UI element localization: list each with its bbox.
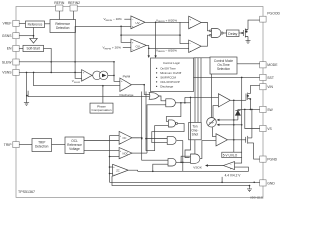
wire long rail to UVLO: [138, 167, 249, 171]
transistor PGOOD pulldown Q1: [242, 30, 244, 36]
wire HS source to SW row: [249, 99, 251, 110]
wire gate A input2 from rail: [153, 164, 168, 171]
svg-text:Detection: Detection: [35, 145, 49, 149]
svg-text:SKIP: SKIP: [209, 122, 215, 124]
wire Delay to PG FET gate: [239, 32, 244, 34]
svg-text:Voltage: Voltage: [69, 147, 80, 151]
wire VSNS to UV+: [75, 25, 131, 27]
box Reference Detection: [50, 20, 76, 33]
wire LS source to PGND: [254, 143, 260, 159]
svg-text:VS: VS: [267, 127, 272, 131]
box TRIP Detection: [32, 139, 52, 152]
svg-text:UV: UV: [136, 21, 140, 25]
svg-text:NOC: NOC: [123, 152, 129, 156]
svg-text:Soft-Start: Soft-Start: [26, 47, 40, 51]
ground symbol near GND: [247, 189, 252, 192]
gate NAND U6: [212, 29, 221, 38]
wire GSNS: [19, 35, 33, 37]
svg-text:VIN: VIN: [267, 85, 273, 89]
wire OCL out 2: [84, 149, 119, 151]
wire VREFIN+20% threshold: [123, 47, 131, 49]
pin REFIN2: [70, 5, 77, 11]
wire Soft-Start out down to VSNS line: [44, 48, 52, 72]
wire mode vertical: [233, 100, 235, 152]
pin REFIN: [56, 5, 63, 11]
gate AND G3: [168, 120, 175, 127]
pin MODE: [260, 62, 266, 68]
bottom rail 1: [110, 181, 260, 183]
wire UVP comp out to NAND: [201, 35, 209, 46]
wire VSNS branch down to OV: [121, 26, 131, 42]
comparator OVP U4: [189, 16, 202, 29]
svg-text:REFIN2: REFIN2: [68, 1, 80, 5]
wire to ZC input2: [110, 172, 113, 174]
junction dots left: [26, 35, 115, 97]
diode D1: [237, 109, 239, 120]
wire OC out to vertical: [132, 137, 142, 139]
svg-text:MODE: MODE: [267, 63, 278, 67]
pin SLEW: [13, 59, 19, 65]
pin GSNS: [13, 33, 19, 39]
pin GND: [260, 180, 266, 186]
comparator OV U3: [131, 39, 146, 52]
wire G2 out: [176, 102, 191, 104]
svg-text:OV: OV: [136, 44, 140, 48]
ground below PG FET: [246, 41, 251, 44]
wire SST branch down to UVLO: [241, 77, 243, 152]
box Delay: [227, 30, 240, 37]
wire G3 out staircase to G4: [152, 123, 184, 142]
gate AND G4: [167, 137, 176, 145]
svg-text:ZC: ZC: [116, 168, 120, 172]
junction dots middle: [141, 84, 191, 140]
box Control Mode On-Time Selection: [210, 57, 237, 74]
svg-text:SW: SW: [267, 108, 273, 112]
wire Ton box down to gate B: [194, 140, 196, 154]
wire EN to Soft-Start: [19, 47, 23, 49]
svg-text:Delay: Delay: [228, 32, 237, 36]
svg-text:VREFIN + 8/20%: VREFIN + 8/20%: [156, 18, 177, 23]
wire Reference to analog ground: [33, 28, 35, 39]
pin PGOOD: [260, 16, 266, 22]
svg-text:OCL/OVP/UVP: OCL/OVP/UVP: [160, 80, 180, 84]
box Control Logic: [151, 58, 194, 92]
svg-text:UDG-11121: UDG-11121: [250, 196, 264, 200]
svg-text:VSNS: VSNS: [2, 71, 12, 75]
wire VSOK out: [207, 165, 224, 167]
wire REFIN down: [58, 11, 60, 20]
wire to ZC input1: [110, 166, 113, 168]
wire LS driver to LS FET gate: [228, 139, 246, 141]
comparator ZC U13: [113, 164, 129, 176]
wire NOC up to G2 input2: [147, 105, 166, 153]
wire PWM node vertical: [114, 62, 120, 82]
svg-text:5-V UVLO: 5-V UVLO: [223, 153, 238, 157]
op-amp error amplifier U7: [82, 70, 92, 82]
wire VREF pin to Reference: [19, 22, 25, 24]
wire driver node down to gate B: [185, 97, 191, 157]
wire gate B out to LS driver: [200, 141, 216, 159]
box Reference: [26, 21, 45, 28]
wire control vertical 1: [142, 92, 168, 161]
comparator PWM U8: [120, 78, 132, 91]
gate B AND G6: [191, 154, 200, 163]
wire control vertical 2 to G3 input2: [146, 92, 168, 151]
wire skip arrows: [218, 119, 238, 121]
wire MODE: [237, 63, 260, 65]
svg-text:PWM: PWM: [123, 74, 131, 78]
wire PWM out: [132, 84, 145, 86]
box Phase Compensation: [90, 103, 113, 113]
wire OV output: [146, 45, 188, 48]
comparator UVLO U14 (points left): [223, 162, 234, 170]
svg-text:Compensation: Compensation: [92, 108, 112, 112]
svg-text:Control Logic: Control Logic: [163, 61, 181, 65]
wire OR out to AND G2: [159, 96, 166, 101]
arrow VSOK: [205, 164, 208, 167]
wire OCL out 1: [84, 140, 119, 142]
ground below discharge FET: [24, 103, 29, 106]
svg-text:VREFIN – 8/20%: VREFIN – 8/20%: [156, 48, 177, 53]
wire discharge signal: [28, 96, 149, 98]
wire sense distribution vertical: [109, 136, 111, 183]
pin VREF: [13, 20, 19, 26]
gate A AND G5: [168, 159, 176, 166]
svg-text:Discharge: Discharge: [120, 93, 134, 97]
wire branch to G3 staircase: [166, 103, 181, 122]
svg-text:Detection: Detection: [56, 26, 70, 30]
wire PG FET drain to PGOOD: [248, 20, 260, 29]
wire verticals into Ton One-Shot: [194, 58, 196, 123]
wire Reference to Reference Detection: [45, 23, 51, 25]
wire SST: [194, 76, 260, 78]
wire TRIP Detection to OCL box: [52, 144, 66, 146]
analog ground triangle: [30, 38, 38, 43]
wire SLEW: [19, 61, 114, 63]
wire NOC out up to AND1 (drawn above): [132, 152, 147, 154]
driver high-side U9: [218, 94, 230, 107]
wire On-Time box to SKIP circle: [211, 74, 213, 118]
svg-text:VREF: VREF: [2, 22, 11, 26]
wire control logic to on-time box: [194, 57, 211, 59]
svg-text:PGOOD: PGOOD: [267, 12, 280, 16]
junction dots bottom: [102, 85, 255, 187]
wire UV output to OVP comp: [145, 21, 189, 23]
svg-text:SLEW: SLEW: [2, 60, 12, 64]
svg-text:Minimum On/Off: Minimum On/Off: [160, 71, 181, 75]
wire NAND to Delay: [223, 32, 226, 34]
wire gate A out to gate B: [176, 161, 191, 163]
wire node comp right vertical: [180, 22, 189, 43]
svg-text:Selection: Selection: [217, 67, 230, 71]
arrows into skip circle: [217, 119, 220, 126]
wire G4 input1: [146, 138, 167, 140]
comparator UV U2: [131, 16, 145, 29]
wire phase comp to feedback node: [102, 86, 104, 103]
svg-text:PGND: PGND: [267, 158, 277, 162]
junction dots top cluster: [120, 22, 247, 50]
wire VREFIN-10% threshold: [124, 18, 131, 20]
wire LS driver input from skip circle: [213, 127, 217, 137]
wire to HS driver: [185, 96, 219, 98]
comparator OC U11: [119, 131, 132, 144]
wire UVLO down to rail: [221, 177, 223, 182]
svg-text:GND: GND: [267, 181, 275, 185]
pin EN: [13, 45, 19, 51]
svg-text:OC: OC: [123, 136, 127, 140]
wire to NOC input2: [110, 156, 120, 158]
svg-text:REFIN: REFIN: [54, 1, 65, 5]
arrows into control logic: [148, 55, 157, 58]
wire branch up to HS driver line: [184, 97, 186, 102]
pin SST: [260, 74, 266, 80]
svg-text:VSOK: VSOK: [193, 166, 203, 170]
wire UVLO upper input: [235, 158, 242, 164]
svg-text:Reference: Reference: [28, 22, 43, 26]
wire branch up to gate B input1: [181, 156, 190, 162]
wire SW row: [238, 108, 260, 110]
gate OR G1: [149, 93, 159, 100]
transistor HS FET Q3: [245, 94, 247, 101]
circle skip mode: [207, 118, 217, 128]
svg-text:SKIP/FCCM: SKIP/FCCM: [160, 75, 176, 79]
svg-text:GSNS: GSNS: [2, 34, 12, 38]
IC outline: [16, 7, 263, 198]
gate AND G2: [166, 99, 176, 107]
transistor LS FET Q4: [245, 137, 247, 143]
comparator UVP U5: [189, 40, 202, 53]
wire G4 output down across to rail: [182, 141, 184, 172]
box 5-V UVLO: [222, 152, 242, 157]
wire REFIN2 down: [73, 11, 75, 20]
wire VSNS to error amp: [19, 71, 81, 73]
wire PWM to OR input 1: [144, 85, 149, 95]
wire to OC input1: [110, 135, 120, 137]
svg-text:VREFIN + 20%: VREFIN + 20%: [103, 46, 122, 51]
current source arrow: [102, 74, 106, 78]
svg-text:SST: SST: [267, 76, 274, 80]
wire TRIP to TRIP Detection: [19, 144, 32, 146]
svg-text:Shot: Shot: [192, 133, 199, 137]
svg-text:VREFIN – 10%: VREFIN – 10%: [104, 17, 123, 22]
driver low-side U10: [216, 134, 228, 146]
Control Logic text: [160, 61, 181, 88]
current source circles: [93, 71, 102, 80]
svg-text:TRIP: TRIP: [4, 143, 12, 147]
wire VS sense: [245, 109, 260, 128]
wire VSNS riser to comparator feed: [75, 26, 82, 78]
svg-text:4.4 V/4.2 V: 4.4 V/4.2 V: [225, 173, 242, 177]
wire VSNS to right comparators: [121, 34, 180, 36]
pin SW: [260, 106, 266, 112]
box Soft-Start: [23, 45, 44, 51]
junction dots power: [233, 77, 253, 141]
wire OVP comp out to NAND: [201, 23, 209, 31]
wire LS drain to SW row: [251, 109, 253, 137]
svg-text:On/Off Time: On/Off Time: [160, 66, 176, 70]
svg-text:TPS51367: TPS51367: [18, 190, 35, 194]
svg-text:EN: EN: [7, 47, 12, 51]
wire OV branch to control logic: [148, 48, 150, 56]
bottom rail 2: [112, 176, 250, 189]
wire HS drain to VIN: [250, 86, 259, 94]
wire PG FET source to ground: [247, 37, 249, 41]
transistor VSNS discharge Q2: [26, 72, 28, 102]
pin PGND: [260, 156, 266, 162]
svg-text:Discharge: Discharge: [160, 84, 173, 88]
wire UV output branch to control logic: [155, 22, 157, 56]
pin TRIP: [13, 142, 19, 148]
box Ton One-Shot: [189, 122, 202, 139]
svg-text:VSLEW: VSLEW: [72, 79, 81, 84]
box OCL Reference Voltage: [65, 137, 84, 154]
comparator NOC U12: [119, 148, 132, 159]
pin VIN: [260, 84, 266, 90]
pin VS: [260, 125, 266, 131]
wire OC out: [132, 137, 140, 139]
pin VSNS: [13, 69, 19, 75]
wire ZC out to bottom rail: [128, 170, 137, 171]
wire HS driver input2 from skip circle: [213, 106, 218, 118]
wire VSNS branch to PWM lower input: [34, 72, 120, 85]
wire G4 out: [177, 140, 183, 142]
wire current source to PWM node: [108, 74, 114, 76]
wire HS driver to HS FET gate: [230, 99, 246, 101]
